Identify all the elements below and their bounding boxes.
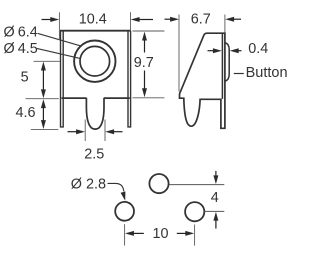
svg-text:2.5: 2.5 <box>84 146 104 162</box>
dim 2.5 extension line right <box>104 120 106 142</box>
svg-text:5: 5 <box>21 69 29 85</box>
dim 10.4 right arrow <box>131 17 140 22</box>
dim 6.7 extension line right <box>224 15 226 33</box>
side view body outline <box>180 33 225 128</box>
dim 6.7 right arrow <box>225 17 234 22</box>
dim 10 left arrow <box>125 231 134 236</box>
dim 10 right arrow <box>185 231 194 236</box>
hole inner circle (dia 4.5) <box>80 46 110 76</box>
pcb hole 2 (top middle) <box>149 174 168 193</box>
dim 10 extension line left <box>124 224 126 245</box>
svg-text:Ø 4.5: Ø 4.5 <box>4 41 38 57</box>
dim 4 extension line top (from hole 2) <box>169 184 224 186</box>
dim 4 up arrow <box>213 212 218 221</box>
dim 4 extension line bottom (from hole 3) <box>204 210 224 212</box>
front view bottom edge left segment <box>62 97 87 99</box>
dim 6.7 left arrow <box>165 18 172 20</box>
dim 4.6 line <box>42 108 44 121</box>
side view plate front surface line <box>221 33 223 99</box>
dim 5 line <box>42 70 44 90</box>
hole outer circle (dia 6.4) <box>74 41 115 82</box>
dim 4.6 extension line bottom <box>31 128 59 130</box>
dim 10.4 left arrow <box>42 19 52 21</box>
dim 4 down arrow <box>215 171 217 177</box>
svg-text:10: 10 <box>152 226 168 242</box>
svg-text:Ø 2.8: Ø 2.8 <box>71 176 106 192</box>
dim 10 extension line right <box>194 225 196 246</box>
dim 9.7 down arrow <box>144 71 146 89</box>
dim 2.5 right arrow <box>105 129 114 134</box>
front view solder prong <box>86 98 104 129</box>
front view left flange (double line leg) <box>61 31 64 127</box>
svg-text:6.7: 6.7 <box>191 11 211 27</box>
pcb hole 3 (bottom right) <box>185 202 204 221</box>
dim 0.4 right arrow <box>230 48 239 53</box>
dim 2.5 left arrow <box>68 131 78 133</box>
svg-text:10.4: 10.4 <box>79 11 107 27</box>
dim 5 extension line top <box>34 60 60 62</box>
front view bottom edge right segment <box>104 97 130 99</box>
dim 2.5 extension line left <box>84 120 86 142</box>
dim 0.4 left arrow <box>208 50 214 52</box>
dim 5 down arrow <box>41 89 46 98</box>
dim 10.4 extension line left <box>58 12 60 40</box>
pcb hole 1 (bottom left) <box>115 202 134 221</box>
button leader dash <box>234 73 244 75</box>
dim 9.7 up arrow <box>142 32 147 41</box>
dim 9.7 extension line bottom <box>133 97 165 99</box>
front view plate top edge <box>60 30 131 32</box>
button bulge <box>225 43 229 82</box>
front view right flange (double line leg) <box>128 31 131 127</box>
dim 10.4 extension line right <box>130 12 132 30</box>
dim 6.7 extension line left <box>178 15 180 92</box>
svg-text:Ø 6.4: Ø 6.4 <box>4 25 38 41</box>
leader dia 2.8 <box>108 183 124 191</box>
svg-text:4: 4 <box>211 190 219 206</box>
svg-text:9.7: 9.7 <box>134 55 154 71</box>
svg-text:4.6: 4.6 <box>15 105 35 121</box>
leader line dia 6.4 <box>38 33 81 45</box>
svg-text:Button: Button <box>246 65 288 81</box>
dim 4.6 up arrow <box>41 99 46 108</box>
svg-text:0.4: 0.4 <box>248 41 268 57</box>
dim 5 up arrow <box>41 62 46 71</box>
dim 5 extension line bottom (plate bottom level) <box>26 98 59 100</box>
leader line dia 4.5 <box>37 48 81 58</box>
dim 9.7 extension line top <box>133 30 165 32</box>
dim 4.6 down arrow <box>41 120 46 129</box>
